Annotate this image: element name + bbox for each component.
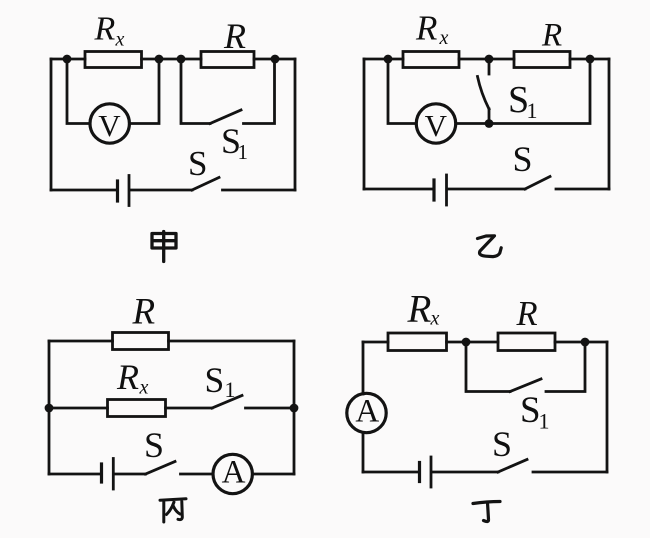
wire: 丙 top rail left segment bbox=[49, 340, 113, 343]
wire: 甲 S1 contact segment bbox=[244, 59, 275, 124]
battery (丙) short plate bbox=[100, 464, 103, 482]
voltmeter V (甲) bbox=[90, 104, 129, 143]
svg-text:A: A bbox=[355, 394, 379, 430]
svg-text:V: V bbox=[425, 108, 448, 143]
svg-text:x: x bbox=[439, 27, 449, 49]
wire: 甲 top rail middle segment bbox=[142, 58, 202, 61]
label Rx (丙) bbox=[116, 357, 149, 399]
svg-text:S: S bbox=[205, 360, 225, 400]
label S1 (甲) bbox=[221, 121, 248, 164]
battery (甲) short plate bbox=[116, 181, 119, 201]
switch S1 blade (丙) bbox=[212, 396, 242, 409]
svg-text:A: A bbox=[222, 455, 246, 491]
wire: 丁 bottom rail left segment bbox=[363, 471, 418, 474]
voltmeter V (乙) bbox=[416, 104, 455, 143]
node dot 乙-a bbox=[384, 55, 393, 64]
svg-text:x: x bbox=[139, 377, 149, 399]
node dot 乙-c bbox=[586, 55, 595, 64]
svg-text:S: S bbox=[513, 139, 533, 179]
node dot 丁-a bbox=[462, 338, 471, 347]
wire: 甲 top rail right segment bbox=[254, 58, 295, 61]
wire: 乙 voltmeter branch left drop bbox=[388, 59, 416, 124]
svg-text:1: 1 bbox=[539, 409, 550, 434]
switch S blade (丙) bbox=[146, 462, 176, 475]
wire: 乙 top rail middle segment bbox=[459, 58, 514, 61]
wire: 甲 right rail bbox=[294, 59, 297, 190]
node dot 甲-a bbox=[63, 55, 72, 64]
resistor Rx (乙) bbox=[403, 52, 459, 68]
label S1 (丙) bbox=[205, 360, 236, 402]
svg-text:S: S bbox=[188, 144, 207, 183]
svg-text:x: x bbox=[430, 308, 440, 330]
svg-text:S: S bbox=[520, 390, 541, 431]
node dot 甲-d bbox=[271, 55, 280, 64]
svg-text:1: 1 bbox=[225, 377, 236, 402]
wire: 乙 right rail bbox=[608, 59, 611, 189]
wire: 丙 bottom rail battery-to-switch segment bbox=[115, 473, 146, 476]
svg-text:x: x bbox=[115, 29, 125, 51]
label 乙 bbox=[478, 236, 502, 257]
wire: 甲 left rail bbox=[50, 59, 53, 190]
resistor R (丙) bbox=[113, 333, 169, 350]
svg-text:S: S bbox=[492, 424, 512, 464]
wire: 丁 left rail lower segment bbox=[362, 433, 365, 473]
node dot 乙-d bbox=[485, 119, 494, 128]
wire: 丙 bottom rail left segment bbox=[49, 473, 100, 476]
svg-text:R: R bbox=[541, 18, 562, 54]
svg-text:R: R bbox=[407, 288, 432, 331]
wire: 甲 voltmeter branch right rise bbox=[130, 59, 159, 124]
wire: 乙 top rail left segment bbox=[364, 58, 403, 61]
svg-text:1: 1 bbox=[238, 140, 249, 164]
wire: 丁 top rail left segment bbox=[363, 341, 388, 344]
resistor R (乙) bbox=[514, 52, 570, 68]
wire: 甲 bottom rail right segment bbox=[223, 189, 296, 192]
wire: 甲 bottom rail left segment bbox=[51, 189, 116, 192]
switch S1 blade (丁) bbox=[510, 379, 541, 392]
wire: 丁 right rail bbox=[606, 342, 609, 472]
wire: 甲 bottom rail middle segment bbox=[130, 189, 192, 192]
label 甲 bbox=[152, 232, 176, 262]
label S1 (乙) bbox=[508, 79, 538, 123]
node dot 甲-c bbox=[177, 55, 186, 64]
resistor Rx (丙) bbox=[108, 400, 166, 417]
switch S blade (乙) bbox=[525, 177, 550, 190]
wire: 甲 S1 branch left drop bbox=[181, 59, 210, 124]
label 丁 bbox=[473, 502, 500, 522]
label Rx (甲) bbox=[94, 11, 125, 51]
svg-text:V: V bbox=[98, 108, 121, 143]
wire: 乙 bottom rail middle segment bbox=[448, 188, 526, 191]
wire: 丙 bottom rail switch-to-ammeter segment bbox=[181, 473, 214, 476]
battery (乙) long plate bbox=[445, 175, 448, 205]
svg-text:R: R bbox=[516, 295, 538, 333]
wire: 丁 S1 contact segment bbox=[546, 342, 585, 392]
svg-text:R: R bbox=[94, 11, 116, 48]
battery (甲) long plate bbox=[128, 176, 131, 206]
wire: 乙 voltmeter branch right run bbox=[456, 59, 590, 124]
wire: 丙 bottom rail right segment bbox=[253, 473, 294, 476]
switch S1 top stub (乙) bbox=[488, 59, 491, 74]
svg-text:S: S bbox=[144, 425, 164, 465]
wire: 甲 voltmeter branch left drop bbox=[67, 59, 90, 124]
battery (丁) short plate bbox=[418, 463, 421, 482]
resistor R (丁) bbox=[498, 333, 555, 351]
battery (丙) long plate bbox=[112, 459, 115, 490]
node dot 丙-b bbox=[290, 404, 299, 413]
wire: 丁 left rail upper segment bbox=[362, 342, 365, 394]
switch S blade (丁) bbox=[498, 460, 527, 473]
node dot 甲-b bbox=[155, 55, 164, 64]
battery (丁) long plate bbox=[430, 457, 433, 487]
node dot 丙-a bbox=[45, 404, 54, 413]
wire: 丙 top rail right segment bbox=[169, 340, 295, 343]
wire: 丙 middle branch middle segment bbox=[166, 407, 213, 410]
switch S1 blade (甲) bbox=[210, 110, 241, 124]
switch S1 blade (乙) bbox=[478, 77, 490, 110]
wire: 丁 bottom rail right segment bbox=[533, 471, 607, 474]
wire: 甲 top rail left segment bbox=[51, 58, 85, 61]
wire: 丙 left rail bbox=[48, 341, 51, 474]
battery (乙) short plate bbox=[432, 180, 435, 200]
label Rx (乙) bbox=[415, 9, 449, 50]
wire: 乙 bottom rail left segment bbox=[364, 188, 432, 191]
wire: 乙 top rail right segment bbox=[570, 58, 609, 61]
wire: 丁 bottom rail middle segment bbox=[433, 471, 499, 474]
node dot 乙-b bbox=[485, 55, 494, 64]
ammeter A (丁) bbox=[347, 393, 386, 432]
wire: 丁 top rail right segment bbox=[555, 341, 607, 344]
label Rx (丁) bbox=[407, 288, 440, 331]
svg-text:R: R bbox=[223, 16, 246, 56]
svg-text:1: 1 bbox=[527, 98, 538, 123]
svg-text:R: R bbox=[132, 292, 156, 333]
label 丙 bbox=[160, 499, 186, 522]
wire: 乙 left rail bbox=[363, 59, 366, 189]
wire: 丁 top rail middle segment bbox=[447, 341, 499, 344]
resistor R (甲) bbox=[201, 52, 254, 68]
label S1 (丁) bbox=[520, 390, 550, 434]
svg-text:R: R bbox=[116, 357, 139, 397]
wire: 丙 middle branch right segment bbox=[246, 407, 295, 410]
svg-text:R: R bbox=[415, 9, 437, 48]
node dot 丁-b bbox=[581, 338, 590, 347]
wire: 丁 S1 branch left drop bbox=[466, 342, 510, 392]
resistor Rx (丁) bbox=[388, 333, 447, 351]
wire: 丙 right rail bbox=[293, 341, 296, 474]
ammeter A (丙) bbox=[213, 454, 252, 493]
wire: 乙 bottom rail right segment bbox=[556, 188, 609, 191]
wire: 丙 middle branch left segment bbox=[49, 407, 108, 410]
resistor Rx (甲) bbox=[85, 52, 142, 68]
switch S1 bottom stub (乙) bbox=[488, 109, 491, 124]
switch S blade (甲) bbox=[192, 178, 219, 191]
